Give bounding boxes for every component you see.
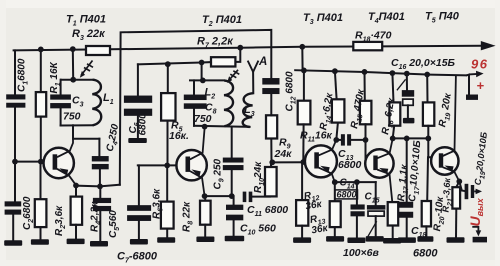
wire R8 top lead: [204, 196, 206, 201]
trimmer arrow L1 core: [81, 61, 93, 76]
node T3 base feed junction: [269, 159, 275, 165]
svg-text:R1 16К: R1 16К: [49, 61, 62, 93]
wire C14 to ground: [356, 216, 358, 238]
wire R2 to ground: [40, 227, 42, 240]
wire R8 to ground: [204, 225, 206, 237]
resistor R19: [423, 102, 434, 125]
wire tank1 bottom: [61, 124, 93, 126]
node C17 tap: [404, 136, 410, 142]
ground under R17: [383, 238, 401, 244]
resistor R3: [86, 46, 110, 55]
wire R9 R10 node: [270, 162, 272, 167]
capacitor C12: [262, 78, 279, 94]
wire C4 bottom lead: [99, 169, 101, 186]
capacitor C13: [341, 134, 351, 145]
wire emitter to C19: [459, 181, 464, 191]
svg-text:6800: 6800: [138, 113, 149, 136]
resistor R18: [353, 42, 382, 50]
capacitor C15 electrolytic: [367, 205, 386, 210]
wire T2 base line: [138, 164, 177, 166]
arrow output signal: [474, 190, 477, 192]
power connector plus terminal: [466, 75, 469, 95]
node T4 base junction R15 C13: [363, 137, 369, 143]
resistor R1: [36, 92, 46, 117]
wire junction to T5 base: [428, 138, 431, 157]
resistor R9: [266, 115, 277, 138]
capacitor C4: [92, 156, 109, 169]
wire tank2 C8 lower lead: [193, 109, 195, 126]
wire lead corner down to C6: [137, 64, 139, 96]
node T3 collector junction: [333, 137, 339, 143]
svg-text:С9 250: С9 250: [213, 158, 226, 189]
wire R20 to ground: [425, 226, 427, 236]
trimmer arrow L2 core: [228, 70, 239, 81]
wire R4 to ground: [75, 225, 77, 239]
svg-text:750: 750: [63, 111, 81, 123]
svg-text:16к.: 16к.: [169, 130, 189, 142]
node rail junction R1 tap: [38, 47, 44, 53]
resistor R7: [211, 57, 235, 66]
node T1 base left junction: [12, 159, 18, 165]
ground under R8: [196, 237, 214, 243]
ground under R20: [417, 236, 433, 242]
svg-text:Т5 П40: Т5 П40: [425, 11, 460, 25]
node tank1 top: [70, 77, 76, 83]
svg-text:100×6в: 100×6в: [343, 247, 379, 259]
resistor R14: [332, 99, 345, 122]
svg-text:750: 750: [194, 113, 212, 125]
wire C15 value pointer: [368, 222, 376, 236]
ground under C7: [130, 239, 148, 245]
node rail junction tank1 feed: [70, 46, 76, 52]
resistor R21: [452, 187, 460, 208]
wire tank2 feed: [201, 63, 203, 81]
wire C10 top lead: [233, 196, 235, 205]
wire rail to sub-rail: [301, 47, 303, 71]
wire emitter node to C9 C10: [205, 195, 232, 197]
wire rail to R1: [40, 49, 42, 92]
wire R15 to T4 base: [365, 124, 367, 163]
resistor R13: [330, 201, 341, 227]
resistor R2: [35, 199, 47, 227]
ground under C17: [398, 237, 416, 243]
resistor R15: [360, 101, 372, 125]
wire C15 to ground: [375, 216, 377, 236]
node T1 emitter junction: [73, 183, 79, 189]
wire T4 collector to T5 base line: [393, 137, 429, 139]
ground under C14: [347, 238, 365, 244]
wire C16 top lead: [406, 74, 408, 91]
node rail junction sub-rail feed: [299, 44, 305, 50]
ground under R2: [31, 239, 49, 245]
wire C15 top lead: [375, 182, 377, 205]
node C4 C5 junction: [97, 184, 103, 190]
wire R5 top lead: [167, 64, 169, 93]
node base junction R1 R2: [38, 159, 44, 165]
capacitor C17: [399, 202, 413, 218]
wire base junction to R2: [40, 162, 42, 200]
svg-text:R8 22к: R8 22к: [182, 201, 195, 232]
wire R13 top lead: [334, 182, 336, 201]
wire R16 top lead: [392, 73, 393, 102]
node sub-rail R19 tap: [424, 72, 430, 78]
svg-text:R63,6к: R63,6к: [152, 188, 165, 219]
wire C9 bottom lead: [231, 170, 233, 196]
resistor R17: [388, 202, 399, 225]
svg-text:+: +: [477, 78, 485, 93]
node sub-rail R15 tap: [362, 69, 368, 75]
capacitor C14: [351, 204, 365, 216]
wire C7 top lead: [138, 165, 140, 205]
node T3 emitter junction: [332, 179, 338, 185]
svg-text:R1024к: R1024к: [253, 161, 266, 193]
wire rail to tank1 top: [72, 49, 74, 79]
wire rail end down to C1: [14, 50, 16, 94]
svg-text:6800: 6800: [337, 190, 357, 200]
capacitor C3: [50, 94, 71, 108]
node R7 lead tank2 feed: [199, 60, 205, 66]
svg-text:R23,6к: R23,6к: [54, 205, 67, 236]
node rail junction R7: [237, 45, 243, 51]
wire antenna stem: [252, 72, 254, 93]
wire sub supply rail: [295, 70, 466, 75]
wire tank2 bottom to L3: [194, 126, 250, 127]
node T2 emitter junction: [202, 193, 208, 199]
capacitor C9: [223, 158, 244, 171]
wire C7 to ground: [138, 221, 140, 240]
wire C17 to ground: [406, 218, 408, 238]
wire C12 to R9: [270, 94, 272, 116]
wire collector node east: [73, 138, 99, 140]
svg-text:R18·470: R18·470: [355, 30, 392, 44]
wire emitter node east T3: [335, 181, 376, 183]
ground under R4: [67, 239, 85, 245]
antenna symbol A: [248, 61, 259, 72]
resistor R16: [389, 102, 400, 125]
ground under C15: [366, 236, 384, 242]
inductor L2: [224, 81, 233, 127]
ground under C2: [4, 240, 22, 246]
node tank2 top: [200, 78, 206, 84]
resistor R4: [71, 197, 83, 225]
wire R6 to ground: [166, 229, 168, 238]
resistor R8: [200, 201, 211, 225]
wire R4 top lead: [75, 186, 77, 197]
wire C2 to ground: [12, 214, 14, 240]
svg-text:24к: 24к: [274, 148, 293, 160]
wire R19 to junction: [427, 126, 429, 139]
svg-text:Т4П401: Т4П401: [368, 11, 405, 25]
capacitor C7: [127, 205, 151, 221]
resistor R20: [422, 201, 431, 226]
wire R12 top lead: [301, 162, 303, 200]
node T2 collector junction: [202, 124, 208, 130]
wire R14 to collector node: [336, 123, 338, 140]
wire C16 to local ground: [407, 105, 409, 118]
wire R13 to ground: [334, 227, 336, 236]
wire tank1 C3 upper lead: [60, 80, 62, 95]
svg-text:Т2 П401: Т2 П401: [202, 14, 242, 28]
wire R1 to base line: [40, 117, 42, 162]
node R19 T5 base junction: [425, 136, 431, 142]
wire T1 base: [15, 161, 44, 163]
capacitor C6: [124, 96, 152, 116]
svg-text:R3 22к: R3 22к: [72, 28, 106, 42]
capacitor C11: [243, 192, 253, 203]
wire C11 to R10: [252, 196, 270, 198]
svg-text:Т3 П401: Т3 П401: [303, 12, 343, 26]
svg-text:А: А: [258, 56, 267, 68]
wire C9 top lead: [231, 127, 233, 158]
node sub-rail R16 tap: [390, 70, 396, 76]
wire AGC feedback line: [120, 30, 271, 185]
capacitor C2: [5, 201, 22, 214]
wire tank2 top: [190, 79, 224, 81]
inductor L3: [243, 93, 254, 127]
wire emitter node east: [76, 185, 120, 187]
wire R17 to ground: [392, 226, 394, 239]
resistor R5: [161, 93, 175, 121]
inductor L1: [92, 80, 101, 126]
svg-text:R7 2,2к: R7 2,2к: [197, 36, 234, 50]
wire C5 top lead: [99, 186, 101, 198]
capacitor C8: [184, 95, 207, 109]
wire tank2 C8 upper lead: [193, 80, 195, 94]
transistor T5: [431, 75, 459, 181]
transistor T1: [44, 139, 77, 185]
wire R16 to collector node: [393, 126, 395, 139]
node sub-rail C16 tap: [404, 71, 410, 77]
wire R19 top lead: [426, 75, 428, 103]
capacitor C16 electrolytic: [402, 90, 414, 97]
svg-text:С12 6800: С12 6800: [285, 71, 298, 111]
svg-text:6800: 6800: [338, 159, 362, 171]
wire R7 right lead to rail: [235, 48, 240, 62]
wire T3 base line: [272, 161, 304, 163]
ground under R21: [447, 237, 465, 243]
ground under R12: [293, 237, 311, 243]
output terminal Uout: [472, 227, 478, 231]
ground under C16: [403, 118, 415, 124]
capacitor C5: [93, 198, 111, 211]
wire C13 to T4 base node: [351, 139, 365, 141]
ground under C10: [225, 236, 245, 242]
node T4 collector junction: [390, 136, 396, 142]
svg-text:С16800: С16800: [17, 58, 30, 92]
svg-text:С10 560: С10 560: [240, 223, 276, 237]
svg-text:С11 6800: С11 6800: [247, 204, 288, 218]
wire C13 left lead: [336, 139, 341, 141]
node T3 base junction R11 R12: [300, 159, 306, 165]
wire R6 top lead: [166, 165, 168, 201]
node R7 lead R5 tap: [165, 61, 171, 67]
wire C1 to base node: [14, 107, 16, 201]
wire R5 to T2 base line: [167, 121, 169, 166]
node T2 base junction R5 R6: [164, 163, 170, 169]
resistor R11: [298, 101, 311, 125]
wire T5 base to R20: [426, 157, 429, 201]
label C14 value box: [335, 190, 358, 199]
wire C16 label pointer: [397, 80, 405, 90]
wire C5 to ground: [99, 211, 101, 241]
node sub-rail R11 tap: [301, 68, 307, 74]
ground under C5: [90, 241, 108, 247]
transistor T4: [365, 138, 393, 202]
resistor R10: [265, 167, 277, 196]
ground under R13: [326, 236, 344, 242]
wire R11 to base: [302, 124, 304, 162]
wire R15 top lead: [364, 72, 366, 101]
svg-text:С5560: С5560: [108, 210, 121, 238]
svg-text:С7-6800: С7-6800: [117, 251, 158, 265]
transistor T3: [305, 140, 337, 182]
transistor T2: [176, 128, 206, 196]
capacitor C19 electrolytic: [465, 184, 469, 199]
wire main supply rail: [14, 46, 481, 51]
node sub-rail R14 tap: [332, 68, 338, 74]
svg-text:Т1 П401: Т1 П401: [66, 14, 106, 28]
node C9 C10 C11 junction: [229, 193, 235, 199]
resistor R12: [296, 200, 308, 226]
arrow supply rail end: [481, 41, 496, 50]
node C14 tap: [354, 179, 360, 185]
wire C14 top lead: [356, 182, 358, 205]
svg-text:С26800: С26800: [22, 196, 35, 230]
ground under C6: [128, 138, 147, 143]
svg-text:R42,2к: R42,2к: [90, 201, 103, 232]
wire R7 left lead: [138, 62, 211, 64]
svg-text:6800: 6800: [413, 248, 438, 260]
ground under R6: [157, 237, 175, 243]
wire C10 to ground: [233, 220, 235, 236]
capacitor C1: [6, 94, 25, 107]
wire tank1 top: [61, 79, 93, 81]
capacitor C10: [226, 205, 243, 221]
wire C6 to local ground: [137, 116, 139, 139]
wire C17 top lead: [406, 138, 408, 202]
wire tank1 C3 lower lead: [60, 108, 62, 125]
wire R21 to ground: [455, 209, 457, 238]
wire R21 top lead: [456, 181, 459, 187]
wire tank1 bottom to collector node: [72, 125, 74, 138]
wire R12 to ground: [301, 226, 303, 238]
wire C4 top lead: [98, 139, 100, 157]
wire R14 top lead: [335, 71, 337, 99]
node T5 emitter junction: [456, 179, 462, 185]
wire R9 bottom lead: [270, 139, 272, 163]
wire R11 top lead: [303, 70, 305, 100]
svg-text:96: 96: [471, 57, 488, 72]
resistor R6: [161, 202, 174, 229]
